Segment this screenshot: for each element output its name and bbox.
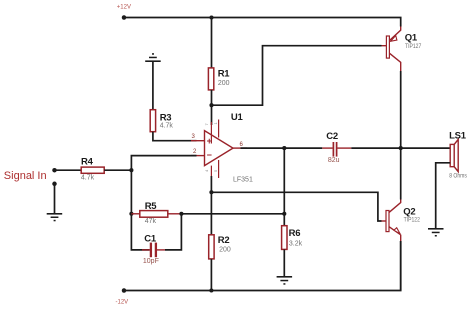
svg-text:TIP127: TIP127	[405, 44, 421, 51]
wire signal ground	[54, 184, 56, 213]
label R4	[81, 156, 94, 167]
wire pin 3 stub	[191, 140, 205, 142]
resistor R2	[209, 235, 214, 259]
label R3	[160, 112, 172, 123]
wire R2 bottom to -12V rail	[210, 259, 212, 291]
wire rail to R1 top	[211, 18, 213, 68]
value TIP127 (Q1)	[405, 44, 421, 51]
wire Q2 base stub	[382, 220, 387, 222]
transistor Q1	[386, 27, 400, 72]
value 82u (C2)	[328, 157, 340, 164]
op-amp U1 pin 4 stub	[210, 166, 212, 176]
label Q1	[405, 33, 418, 44]
pin label 3	[192, 134, 196, 140]
svg-text:-12V: -12V	[116, 300, 129, 306]
terminal dot -12V	[122, 288, 127, 293]
wire Q1 base stub	[382, 45, 387, 47]
svg-text:200: 200	[218, 80, 230, 87]
label Signal In	[4, 170, 47, 182]
wire inverting node vertical	[131, 156, 196, 250]
junction dot rail/R2	[209, 288, 213, 292]
pin label 6	[240, 142, 244, 148]
label LS1	[449, 130, 467, 141]
junction dot pin4/Q2 base	[209, 190, 213, 194]
value 4.7k (R4)	[81, 175, 95, 182]
ground speaker	[428, 228, 444, 237]
wire node V+ to Q1 base	[212, 46, 382, 105]
-12V label	[116, 300, 129, 306]
svg-text:10pF: 10pF	[143, 258, 159, 265]
label R2	[218, 235, 230, 246]
junction dot output node	[282, 146, 286, 150]
label R5	[145, 201, 158, 212]
svg-text:Q2: Q2	[403, 207, 415, 218]
terminal dot signal ground	[52, 182, 57, 187]
svg-text:−: −	[207, 150, 212, 160]
junction dot R5/C1 right	[179, 212, 183, 216]
label U1	[231, 112, 244, 123]
svg-text:47k: 47k	[145, 218, 157, 225]
svg-text:LF351: LF351	[233, 176, 253, 183]
junction dot rail/R1	[209, 15, 213, 19]
svg-text:R5: R5	[145, 201, 158, 212]
op-amp U1	[205, 131, 234, 166]
svg-text:+12V: +12V	[117, 4, 131, 10]
wire R4 to inverting node	[104, 169, 131, 171]
wire R3 bottom to pin 3	[153, 132, 197, 141]
ground R6	[277, 276, 293, 285]
svg-text:R1: R1	[218, 69, 231, 80]
value 8 Ohms (LS1)	[449, 173, 467, 180]
+12V label	[117, 4, 131, 10]
svg-text:Signal In: Signal In	[4, 170, 47, 182]
wire R1 bottom to node V+	[211, 90, 213, 125]
wire op-amp output	[233, 147, 247, 149]
label C2	[326, 131, 338, 142]
value 47k (R5)	[145, 218, 157, 225]
resistor R6	[282, 226, 287, 250]
svg-text:U1: U1	[231, 112, 244, 123]
junction dot R5 left	[129, 212, 133, 216]
resistor R3	[150, 110, 155, 132]
label R6	[289, 228, 301, 239]
svg-text:4.7k: 4.7k	[81, 175, 95, 182]
wire Q2 emitter to -12V rail	[400, 241, 402, 290]
resistor R4	[81, 167, 104, 173]
svg-text:200: 200	[219, 246, 231, 253]
wire output to C2	[241, 147, 323, 149]
value TIP122 (Q2)	[404, 217, 420, 224]
transistor Q2	[386, 200, 401, 242]
terminal dot signal	[52, 168, 57, 173]
svg-text:6: 6	[240, 142, 244, 148]
svg-text:5: 5	[213, 169, 218, 172]
op-amp plus sign	[207, 136, 212, 146]
svg-text:R6: R6	[289, 228, 301, 239]
wire pin 2 stub	[191, 155, 205, 157]
svg-text:+: +	[207, 136, 212, 146]
wire C1 right to feedback	[165, 214, 181, 250]
wire ground to R3 top	[152, 62, 154, 110]
value 4.7k (R3)	[160, 123, 174, 130]
svg-text:3: 3	[192, 134, 196, 140]
speaker LS1	[450, 139, 458, 171]
value 3.2k (R6)	[289, 241, 303, 248]
capacitor C1	[142, 243, 165, 258]
label C1	[144, 233, 157, 244]
svg-text:3.2k: 3.2k	[289, 241, 303, 248]
junction dot node V+	[209, 103, 213, 107]
junction dot output/Q collectors	[399, 146, 403, 150]
op-amp U1 pin 8 stub	[218, 120, 220, 138]
svg-text:1: 1	[213, 122, 218, 125]
junction dot feedback/R6	[282, 212, 286, 216]
svg-text:4: 4	[204, 169, 209, 172]
pin label 8	[213, 122, 218, 125]
op-amp minus sign	[207, 150, 212, 160]
ground above R3 (inverted)	[145, 53, 161, 62]
op-amp U1 pin 5 stub	[218, 160, 220, 178]
svg-text:82u: 82u	[328, 157, 340, 164]
svg-text:C2: C2	[326, 131, 338, 142]
ground signal input	[47, 213, 63, 221]
wire -12V rail	[124, 241, 401, 291]
pin label 4	[204, 169, 209, 172]
value LF351	[233, 176, 253, 183]
wire C2 to speaker	[351, 147, 450, 149]
svg-text:C1: C1	[144, 233, 157, 244]
value 10pF (C1)	[143, 258, 159, 265]
pin label 2	[193, 149, 197, 155]
capacitor C2	[322, 142, 351, 157]
wire output node down to R6	[283, 148, 285, 226]
junction dot R4/inverting	[129, 168, 133, 172]
value 200 (R2)	[219, 246, 231, 253]
wire +12V rail	[124, 18, 401, 27]
svg-text:Q1: Q1	[405, 33, 418, 44]
label Q2	[403, 207, 415, 218]
svg-text:8 Ohms: 8 Ohms	[449, 173, 467, 180]
wire output node to Q2 collector	[400, 148, 402, 199]
pin label 7	[204, 123, 209, 126]
svg-text:7: 7	[204, 123, 209, 126]
op-amp U1 pin 7 stub	[210, 122, 212, 144]
wire speaker bottom lead	[436, 163, 451, 228]
svg-text:R2: R2	[218, 235, 230, 246]
svg-text:TIP122: TIP122	[404, 217, 420, 224]
label R1	[218, 69, 231, 80]
resistor R1	[208, 68, 213, 90]
wire R6 bottom to ground	[283, 249, 285, 276]
terminal dot +12V	[122, 15, 127, 20]
resistor R5	[131, 211, 181, 218]
svg-text:LS1: LS1	[449, 130, 467, 141]
svg-text:R4: R4	[81, 156, 94, 167]
wire signal to R4	[55, 169, 82, 171]
svg-text:2: 2	[193, 149, 197, 155]
wire Q1 collector to output node	[400, 71, 402, 148]
wire feedback to output node	[181, 213, 284, 215]
svg-text:4.7k: 4.7k	[160, 123, 174, 130]
wire pin4 node down to R2 and Q2 base	[211, 176, 381, 235]
value 200 (R1)	[218, 80, 230, 87]
pin label 5	[213, 169, 218, 172]
